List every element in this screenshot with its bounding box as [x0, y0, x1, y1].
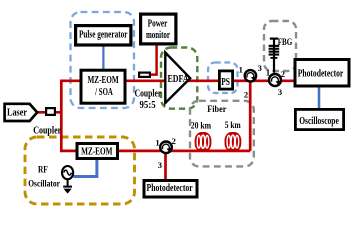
svg-text:Oscillator: Oscillator	[28, 178, 60, 189]
svg-text:PS: PS	[221, 76, 230, 87]
svg-text:1: 1	[266, 68, 270, 78]
svg-text:95:5: 95:5	[140, 101, 156, 112]
svg-text:Photodetector: Photodetector	[147, 182, 193, 193]
svg-text:3: 3	[258, 63, 262, 73]
svg-text:Oscilloscope: Oscilloscope	[299, 115, 339, 126]
svg-text:/ SOA: / SOA	[94, 86, 113, 98]
svg-text:Power: Power	[148, 17, 168, 28]
svg-text:MZ-EOM: MZ-EOM	[87, 74, 118, 85]
svg-text:2: 2	[281, 69, 285, 79]
svg-text:Photodetector: Photodetector	[298, 68, 344, 79]
svg-text:RF: RF	[38, 163, 48, 174]
svg-text:3: 3	[158, 160, 162, 170]
svg-text:3: 3	[278, 87, 282, 97]
svg-text:Coupler: Coupler	[135, 87, 162, 98]
svg-text:2: 2	[244, 89, 248, 99]
svg-text:monitor: monitor	[146, 29, 170, 41]
svg-text:Coupler: Coupler	[33, 125, 61, 136]
svg-text:2: 2	[172, 136, 176, 146]
svg-text:FBG: FBG	[278, 36, 293, 47]
svg-text:Fiber: Fiber	[207, 104, 226, 115]
svg-text:Laser: Laser	[7, 108, 27, 119]
svg-text:5 km: 5 km	[225, 119, 241, 130]
svg-text:EDFA: EDFA	[167, 73, 188, 84]
svg-text:20 km: 20 km	[191, 120, 211, 131]
svg-text:MZ-EOM: MZ-EOM	[81, 145, 112, 156]
svg-text:Pulse generator: Pulse generator	[79, 28, 128, 39]
svg-text:1: 1	[239, 64, 243, 74]
svg-text:1: 1	[155, 138, 159, 148]
